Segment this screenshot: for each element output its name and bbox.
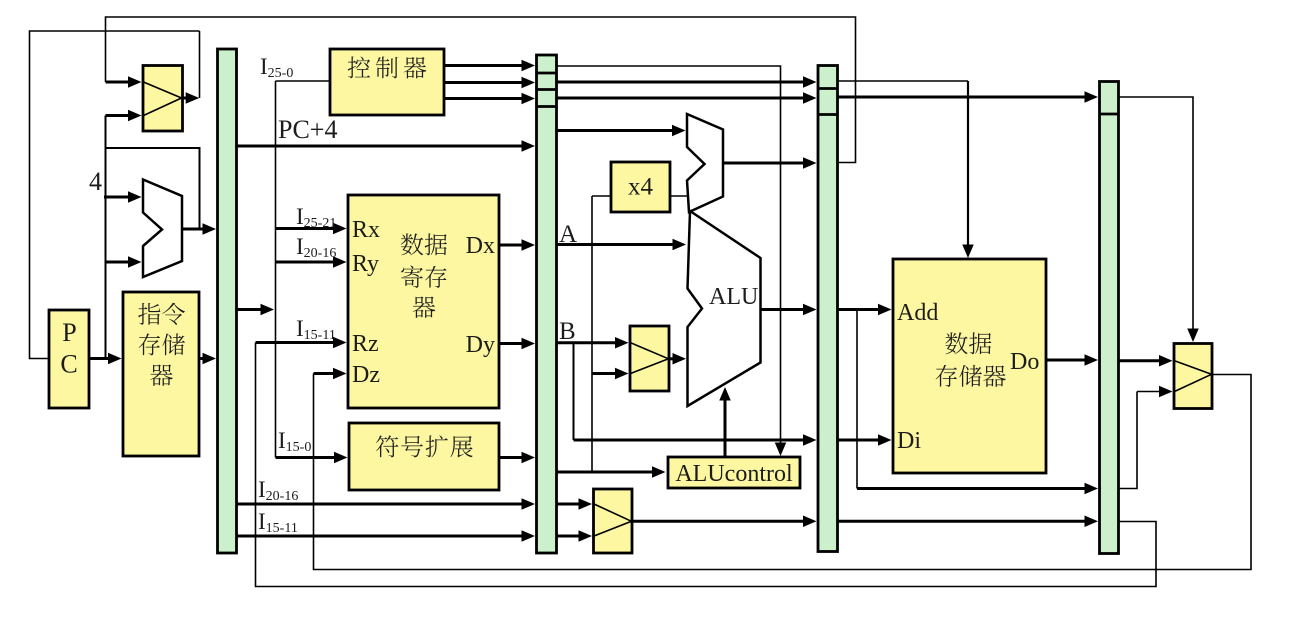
wire Dz write data feedback <box>314 374 1252 570</box>
wire A to ALU input-1 <box>557 243 676 246</box>
svg-text:Rz: Rz <box>352 331 379 357</box>
wire write register number to bar4 <box>838 520 1088 523</box>
svg-text:P: P <box>62 318 76 347</box>
wire ALU result to bar4 <box>857 487 1087 490</box>
wire control signal 1 to bar2 <box>444 64 524 67</box>
controller box <box>330 49 444 115</box>
wire instruction to controller <box>276 80 331 82</box>
wire store data to Di <box>838 439 881 442</box>
wire Rz write register feedback <box>256 343 1157 587</box>
wire ALUcontrol to ALU <box>724 398 727 457</box>
wire mux M1 input-1 from feedback <box>106 81 131 84</box>
svg-text:ALU: ALU <box>709 284 758 310</box>
wire I20-16 to Ry <box>276 261 336 264</box>
wire mux M3 output to bar3 <box>632 520 806 523</box>
wire PC+4 from bar1 to bar2 <box>237 145 525 148</box>
instruction memory box <box>123 292 199 456</box>
svg-text:Dz: Dz <box>352 362 380 388</box>
wire store data into bar3 <box>574 439 806 442</box>
wire adder A1 input-2 from PC <box>106 261 131 264</box>
svg-text:Dy: Dy <box>466 332 495 358</box>
pipeline register bar 1 (IF/ID) <box>218 49 237 553</box>
label 控制器 <box>348 56 427 78</box>
wire sign extend output to bar2 <box>499 456 524 459</box>
register file box <box>348 195 499 408</box>
label 符号扩展 <box>376 435 473 457</box>
mux M2 (ALU operand B select) <box>630 326 669 391</box>
mux M3 (write register select) <box>594 489 633 553</box>
label 数据寄存器 <box>401 233 447 255</box>
wire immediate to x4 <box>592 195 611 197</box>
pipeline register bar 3 (EX/MEM) <box>818 66 838 552</box>
wire immediate vertical <box>591 196 593 472</box>
sign extend box <box>349 423 499 490</box>
ALU <box>688 211 761 406</box>
wire x4 output to adder A2 <box>670 195 689 197</box>
wire control arrowhead at ALUcontrol top <box>775 443 787 457</box>
adder A1 (PC+4) <box>143 180 182 278</box>
wire mux M1 input-2 from PC <box>106 114 131 117</box>
wire Rz into register file <box>256 341 336 344</box>
wire branch-target feedback top line <box>106 17 856 163</box>
wire control to bar3 seg2 <box>557 97 806 100</box>
svg-text:Dx: Dx <box>466 233 495 259</box>
wire control to bar3 seg1 <box>557 81 806 84</box>
wire control signal 3 to bar2 <box>444 97 524 100</box>
wire arrow into data memory top <box>962 245 974 259</box>
wire instruction memory output to bar1 <box>199 357 205 360</box>
wire PC+4 to adder A2 <box>557 129 675 132</box>
svg-text:PC+4: PC+4 <box>278 115 337 144</box>
svg-text:Ry: Ry <box>352 251 379 277</box>
svg-text:Add: Add <box>897 300 938 326</box>
label 指令存储器 <box>138 303 185 325</box>
wire PC branch into IF latch <box>106 148 200 229</box>
pipeline register bar 2 (ID/EX) <box>537 55 557 553</box>
wire PC value vertical feed <box>105 116 107 359</box>
wire B to mux M2 <box>557 341 618 344</box>
wire arrow into mux M4 top <box>1187 329 1199 343</box>
svg-text:I20-16: I20-16 <box>296 234 336 261</box>
wire next-PC loop to PC input <box>30 31 200 359</box>
pipeline register bar 4 (MEM/WB) <box>1100 82 1119 554</box>
svg-text:4: 4 <box>89 167 102 196</box>
wire adder A1 output to bar1 <box>182 228 205 231</box>
wire Dz into register file <box>314 372 336 375</box>
svg-text:I25-0: I25-0 <box>260 54 293 81</box>
wire control to bar4 <box>838 96 1088 99</box>
wire PC output to instruction memory <box>89 357 111 360</box>
wire ALU result bypass down <box>856 310 858 489</box>
wire I20-16 to mux M3 <box>557 503 582 506</box>
wire control signal 2 to bar2 <box>444 81 524 84</box>
wire arrow into mux M4 input-2 <box>1137 391 1163 393</box>
svg-text:ALUcontrol: ALUcontrol <box>675 461 793 487</box>
wire instruction bus vertical <box>275 81 277 458</box>
wire immediate to ALUcontrol <box>557 471 655 474</box>
svg-text:Di: Di <box>897 428 921 454</box>
wire I15-11 to mux M3 <box>557 535 582 538</box>
label 数据存储器 <box>945 332 991 354</box>
wire adder A2 branch target to bar3 <box>723 162 806 165</box>
wire memory data to mux M4 input-1 <box>1119 359 1162 362</box>
wire control signal down to ALUcontrol <box>557 66 781 445</box>
wire ALU result to data memory Add <box>838 308 881 311</box>
x4 box <box>611 162 670 212</box>
wire I15-0 to sign extend <box>276 456 337 459</box>
wire mux M2 output to ALU input-2 <box>669 357 675 360</box>
mux M4 (write back select) <box>1174 344 1212 409</box>
svg-text:I15-11: I15-11 <box>258 509 298 536</box>
ALUcontrol box <box>668 457 800 488</box>
mux M1 (next PC select) <box>143 66 183 132</box>
wire Dx to bar2 <box>499 244 524 247</box>
svg-text:Rx: Rx <box>352 217 380 243</box>
wire I20-16 from bar1 to bar2 <box>237 503 525 506</box>
svg-text:I25-21: I25-21 <box>296 204 336 231</box>
wire I25-21 to Rx <box>276 227 336 230</box>
wire control to data memory top <box>838 80 969 82</box>
svg-text:I15-11: I15-11 <box>296 316 336 343</box>
svg-text:Do: Do <box>1010 349 1039 375</box>
wire immediate to mux M2 input-2 <box>592 372 618 375</box>
wire constant 4 into adder A1 <box>104 196 131 199</box>
svg-text:I20-16: I20-16 <box>258 477 298 504</box>
wire Dy to bar2 <box>499 342 524 345</box>
wire B down to store-data line <box>573 343 575 440</box>
svg-text:A: A <box>559 221 577 248</box>
svg-text:I15-0: I15-0 <box>278 428 311 455</box>
wire ALU result to mux M4 input-2 <box>1119 392 1138 489</box>
svg-text:C: C <box>60 350 77 379</box>
register PC <box>49 310 89 408</box>
wire I15-11 from bar1 to bar2 <box>237 535 525 538</box>
svg-text:B: B <box>559 318 576 345</box>
data memory box <box>893 259 1046 473</box>
wire mux M1 output <box>183 97 193 100</box>
wire Do to bar4 <box>1046 359 1087 362</box>
wire instruction from bar1 <box>237 308 264 311</box>
svg-text:x4: x4 <box>628 174 654 201</box>
wire ALU result to bar3 <box>761 308 806 311</box>
adder A2 (branch target) <box>687 114 723 212</box>
wire control down to mux M4 <box>1119 97 1194 330</box>
